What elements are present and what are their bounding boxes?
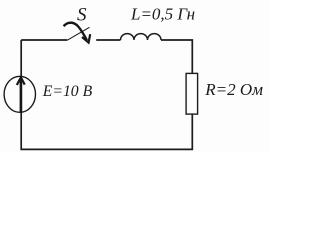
svg-text:S: S — [77, 5, 87, 26]
svg-text:L=0,5 Гн: L=0,5 Гн — [130, 4, 195, 23]
svg-text:R=2 Ом: R=2 Ом — [204, 80, 263, 99]
svg-text:E=10 В: E=10 В — [42, 83, 93, 100]
